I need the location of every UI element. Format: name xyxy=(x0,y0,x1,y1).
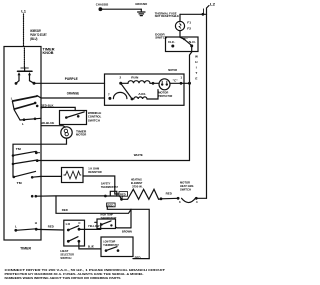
svg-text:WHITE: WHITE xyxy=(134,153,143,157)
wire red node vertical xyxy=(130,209,132,228)
svg-text:TM: TM xyxy=(17,181,23,185)
wire thermal fuse to L2 xyxy=(180,13,207,15)
footer note text xyxy=(5,268,166,280)
wire purple: start switch to motor run terminal xyxy=(34,82,105,84)
wire orange: timer to motor aux terminal xyxy=(41,97,105,99)
svg-text:SWITCH: SWITCH xyxy=(88,118,101,122)
wire resistor to heater node xyxy=(83,176,119,194)
wire white vertical: door switch to motor and timer xyxy=(190,46,192,161)
timer contact group TM lower xyxy=(13,171,62,197)
wire brown: high temp thermostat to node xyxy=(116,226,132,229)
timer box outline xyxy=(4,47,41,241)
svg-text:F1: F1 xyxy=(187,21,191,25)
wire red: timer heat contact to safety thermostat xyxy=(36,195,106,197)
wire to L2 rail xyxy=(196,197,206,199)
svg-text:BLUE: BLUE xyxy=(88,245,94,249)
wire blue: heat selector to low temp thermostat xyxy=(79,241,101,249)
node L2 rail xyxy=(207,6,210,199)
svg-text:E: E xyxy=(195,77,197,81)
low temp thermostat xyxy=(101,237,133,257)
svg-text:ORANGE: ORANGE xyxy=(67,92,79,96)
chassis ground xyxy=(96,2,148,15)
vertical WHITE wire label xyxy=(195,55,198,81)
high temp thermostat xyxy=(97,213,117,229)
svg-text:N.O.: N.O. xyxy=(189,40,196,44)
wire white: timer through to door switch xyxy=(37,160,189,162)
svg-text:KNOB: KNOB xyxy=(43,51,55,55)
wire low temp out xyxy=(133,258,149,260)
svg-text:RED: RED xyxy=(48,224,55,228)
svg-text:GROUND: GROUND xyxy=(135,2,148,6)
motor heat centrifugal switch 3-4 xyxy=(177,181,198,204)
svg-text:PURPLE: PURPLE xyxy=(65,77,78,81)
svg-text:L: L xyxy=(11,96,13,100)
safety thermostat xyxy=(101,182,118,198)
door switch xyxy=(155,32,198,51)
svg-text:RED: RED xyxy=(135,255,142,259)
wire timer motor return to timer contacts xyxy=(13,138,67,177)
motor aux winding and centrifugal switch xyxy=(108,83,158,100)
svg-text:3750 W.: 3750 W. xyxy=(132,185,143,189)
wire red-blk: timer to wrinkle control switch xyxy=(40,106,42,108)
svg-text:I: I xyxy=(196,66,197,70)
svg-text:T: T xyxy=(195,71,197,75)
thermal fuse F1-F2 xyxy=(155,11,192,39)
wire red: heating element to centrifugal switch xyxy=(160,197,163,200)
motor run winding xyxy=(119,75,159,85)
svg-text:L1: L1 xyxy=(21,9,26,13)
timer cam switch contacts (upper) xyxy=(11,95,41,126)
motor box xyxy=(105,74,185,105)
svg-text:"C": "C" xyxy=(173,78,179,82)
svg-text:W: W xyxy=(195,55,198,59)
svg-text:L: L xyxy=(15,225,17,229)
red label box at heater node xyxy=(119,192,128,197)
svg-text:LO: LO xyxy=(66,222,71,226)
timer motor TM xyxy=(61,127,87,138)
svg-text:SWITCH: SWITCH xyxy=(60,256,71,260)
wire red: timer to heat selector xyxy=(36,228,64,231)
svg-text:RED-BLK: RED-BLK xyxy=(41,103,54,107)
svg-text:TM: TM xyxy=(16,147,22,151)
wire L1 feed (dotted) xyxy=(23,14,25,47)
svg-text:RUN: RUN xyxy=(131,75,138,79)
svg-text:CHASSIS: CHASSIS xyxy=(96,3,109,7)
red label mid node xyxy=(107,203,116,207)
svg-text:NUMBERS WHEN WRITING ABOUT THI: NUMBERS WHEN WRITING ABOUT THIS DRYER OR… xyxy=(5,276,121,280)
wire stub into high temp thermostat xyxy=(95,221,97,223)
svg-text:BK-BLUE: BK-BLUE xyxy=(41,121,54,125)
svg-text:RED: RED xyxy=(166,192,173,196)
switch S1 momentary push-to-start xyxy=(15,48,36,85)
svg-text:RED: RED xyxy=(107,203,114,207)
wire red branch down xyxy=(56,196,131,213)
motor protector xyxy=(158,79,173,98)
svg-text:BROWN: BROWN xyxy=(122,230,132,234)
svg-text:MOTOR: MOTOR xyxy=(168,68,177,72)
svg-text:L: L xyxy=(22,122,24,126)
svg-text:SWITCH: SWITCH xyxy=(180,188,191,192)
svg-text:THERMOSTAT: THERMOSTAT xyxy=(101,216,117,220)
heating element 3750W xyxy=(117,178,161,201)
heat selector switch xyxy=(60,220,84,260)
svg-text:MOTOR: MOTOR xyxy=(76,133,87,137)
svg-text:N.C.: N.C. xyxy=(168,40,175,44)
svg-text:RED: RED xyxy=(62,208,69,212)
svg-text:NOT RESETTABLE: NOT RESETTABLE xyxy=(155,14,179,18)
svg-text:THERMOSTAT: THERMOSTAT xyxy=(101,185,118,189)
svg-text:TIMER: TIMER xyxy=(20,246,32,250)
svg-text:SWITCH: SWITCH xyxy=(155,36,168,40)
svg-text:AUX.: AUX. xyxy=(138,92,146,96)
svg-text:RESISTOR: RESISTOR xyxy=(88,170,102,174)
timer contact L-H (heat circuit) xyxy=(14,221,37,232)
svg-text:PROTECTOR: PROTECTOR xyxy=(158,94,173,98)
resistor R1 1K ohm xyxy=(62,167,103,183)
svg-text:L2: L2 xyxy=(210,2,215,6)
wrinkle control switch xyxy=(60,111,102,125)
svg-text:(BLU): (BLU) xyxy=(30,37,37,41)
svg-text:YELLOW: YELLOW xyxy=(88,224,100,228)
svg-text:RED: RED xyxy=(120,193,127,197)
wire yellow: heat selector C to high temp thermostat xyxy=(79,223,101,229)
timer contact group TM upper xyxy=(12,147,40,165)
svg-text:F2: F2 xyxy=(187,27,191,31)
